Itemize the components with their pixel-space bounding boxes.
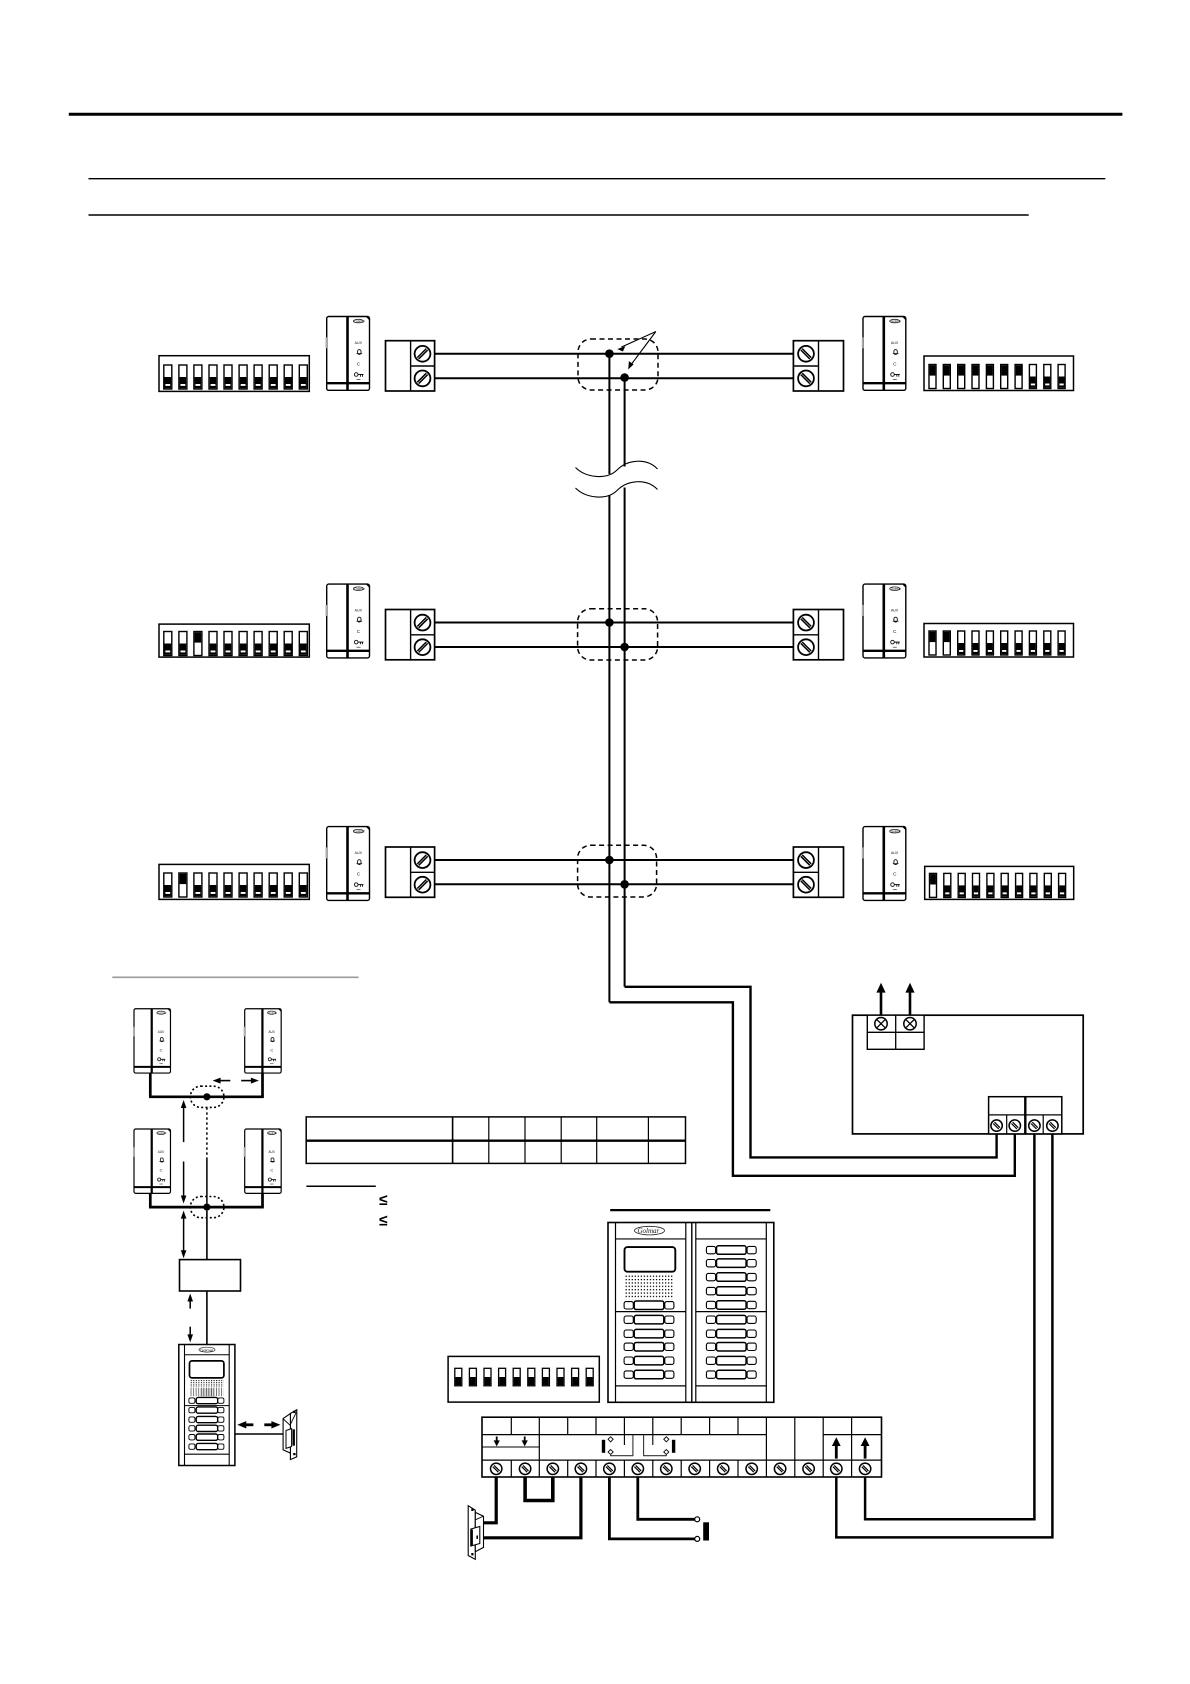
door strike (street panel) [468,1506,483,1560]
wire terminal 1 to strike [483,1477,496,1523]
svg-text:Golmar: Golmar [638,1227,660,1235]
cable break wave lower [576,482,658,497]
junction box floor2 dashed [578,609,658,660]
node floor1 A [605,856,614,865]
wire sub A2 drop [261,1073,264,1097]
exit button symbol B [644,1435,676,1456]
PSU mains arrow left [876,983,885,1015]
big panel display [625,1247,676,1272]
small panel speaker dots [191,1380,224,1387]
wire floor2 bus B horizontal [435,646,794,648]
cable section table [306,1117,685,1164]
wire sub bus B [149,1206,264,1209]
handset unit sub A2 [244,1009,282,1073]
small entry panel [179,1345,235,1466]
terminal block floor2 right [793,610,843,660]
node sub A [203,1093,210,1100]
header rule 2 [89,178,1106,180]
big panel overline [610,1209,770,1211]
junction outline sub A dotted [190,1086,224,1107]
strip up arrow terminal 13 [832,1437,841,1458]
wire floor2 bus A horizontal [435,622,794,624]
dip switch bank street panel (all down) [448,1356,599,1402]
big panel logo [635,1226,665,1235]
wire sub bus A [149,1095,264,1098]
dip switch bank floor3 right (1-7 up, 8-10 down) [924,356,1074,391]
header rule 3 [89,214,1029,216]
node sub B [203,1204,210,1211]
junction box floor3 dashed [578,339,658,390]
arrows panel-strike outward [237,1421,280,1428]
svg-text:Golmar: Golmar [200,1347,214,1352]
node floor2 A [605,618,614,627]
handset unit floor2 left [326,584,370,658]
wire sub A1 drop [149,1073,152,1097]
door release button [695,1517,709,1542]
junction box floor1 dashed [578,845,657,897]
wire floor1 bus A horizontal [435,859,794,861]
handset unit floor1 right [862,827,906,901]
dimension arrow distributor-panel upper [187,1294,193,1309]
handset unit sub B2 [244,1129,282,1193]
strip down arrow terminal 1 [494,1437,500,1447]
wire sub B1 drop [149,1193,152,1207]
dip switch bank floor1 right (1 up) [925,866,1074,899]
wire terminal 4 to strike [484,1477,581,1538]
street entry panel (2 modules) [608,1223,774,1403]
handset unit floor3 right [862,317,906,391]
arrows distributor branch outward [213,1078,259,1084]
dimension arrow distributor-panel lower [187,1327,193,1343]
wire sub riser solid segment [206,1158,208,1204]
big panel left module rows [624,1315,674,1378]
section divider gray line [112,976,358,978]
big panel right module rows [706,1246,756,1379]
wire small panel to strike [235,1433,283,1435]
strip screws [491,1463,871,1474]
big panel speaker grid [625,1275,674,1299]
handset unit sub B1 [133,1129,171,1193]
small panel speaker comb [191,1388,224,1397]
dimension arrow pair AB lower [181,1162,187,1204]
wire distributor to panel [206,1291,208,1345]
wire floor1 bus B horizontal [435,883,794,885]
svg-text:≤: ≤ [379,1212,388,1229]
dimension arrow pair AB upper [181,1100,187,1142]
street panel terminal strip [482,1417,882,1477]
node floor1 B [620,880,629,889]
cable break wave upper [576,461,658,476]
big panel call button row 0 [624,1301,674,1310]
small panel button rows [185,1397,230,1449]
handset unit sub A1 [133,1009,171,1073]
dip switch bank floor2 right (1-2 up) [924,624,1074,658]
wire sub B2 drop [261,1193,264,1207]
wire terminal 6 to door button [638,1477,695,1519]
wire terminal 5 to door button [609,1477,694,1539]
wire riser B to PSU terminal 1 [625,987,997,1158]
handset unit floor1 left [326,827,370,901]
wire PSU terminal 3 to street panel terminal 14 [865,1134,1034,1519]
callout arrows to floor3 nodes [617,332,656,370]
strip up arrow terminal 14 [861,1437,870,1458]
exit button symbol A [602,1435,633,1456]
wire riser B vertical [624,378,626,987]
handset unit floor2 right [862,584,906,658]
power supply unit box [853,1015,1084,1134]
wire jumper terminals 2-3 [525,1477,553,1501]
terminal block floor1 left [386,847,435,897]
distributor box [180,1260,241,1291]
wire floor3 bus A horizontal [435,353,794,355]
terminal block floor3 right [793,341,843,391]
less-equal symbol 1 [379,1192,388,1209]
less-equal symbol 2 [379,1212,388,1229]
node floor2 B [620,643,629,652]
wire sub B to distributor [206,1211,208,1260]
dip switch bank floor3 left (all down) [159,356,309,392]
dip switch bank floor1 left (2 up) [159,864,309,899]
wire riser A to PSU terminal 2 [609,1002,1014,1176]
wire sub riser dotted segment [206,1107,208,1158]
terminal block floor3 left [386,341,435,391]
PSU mains terminal grid [867,1015,924,1049]
dip switch bank floor2 left (3 up) [159,624,309,657]
handset unit floor3 left [326,317,370,391]
node floor3 B [620,373,629,382]
terminal block floor2 left [386,610,435,660]
door strike (small panel) [283,1410,297,1460]
header thick rule [69,113,1123,116]
small panel bottom band [185,1453,230,1455]
terminal block floor1 right [793,847,843,897]
PSU mains arrow right [905,983,914,1015]
node floor3 A [605,349,614,358]
PSU output terminal block [989,1097,1062,1134]
junction outline sub B dotted [190,1197,224,1218]
dimension arrow B-distributor double [181,1211,187,1259]
strip down arrow terminal 2 [522,1437,528,1447]
note underline [306,1185,375,1187]
wire riser A vertical [608,354,610,1003]
wire PSU terminal 4 to street panel terminal 13 [836,1134,1052,1538]
wire floor3 bus B horizontal [435,377,794,379]
svg-text:≤: ≤ [379,1192,388,1209]
